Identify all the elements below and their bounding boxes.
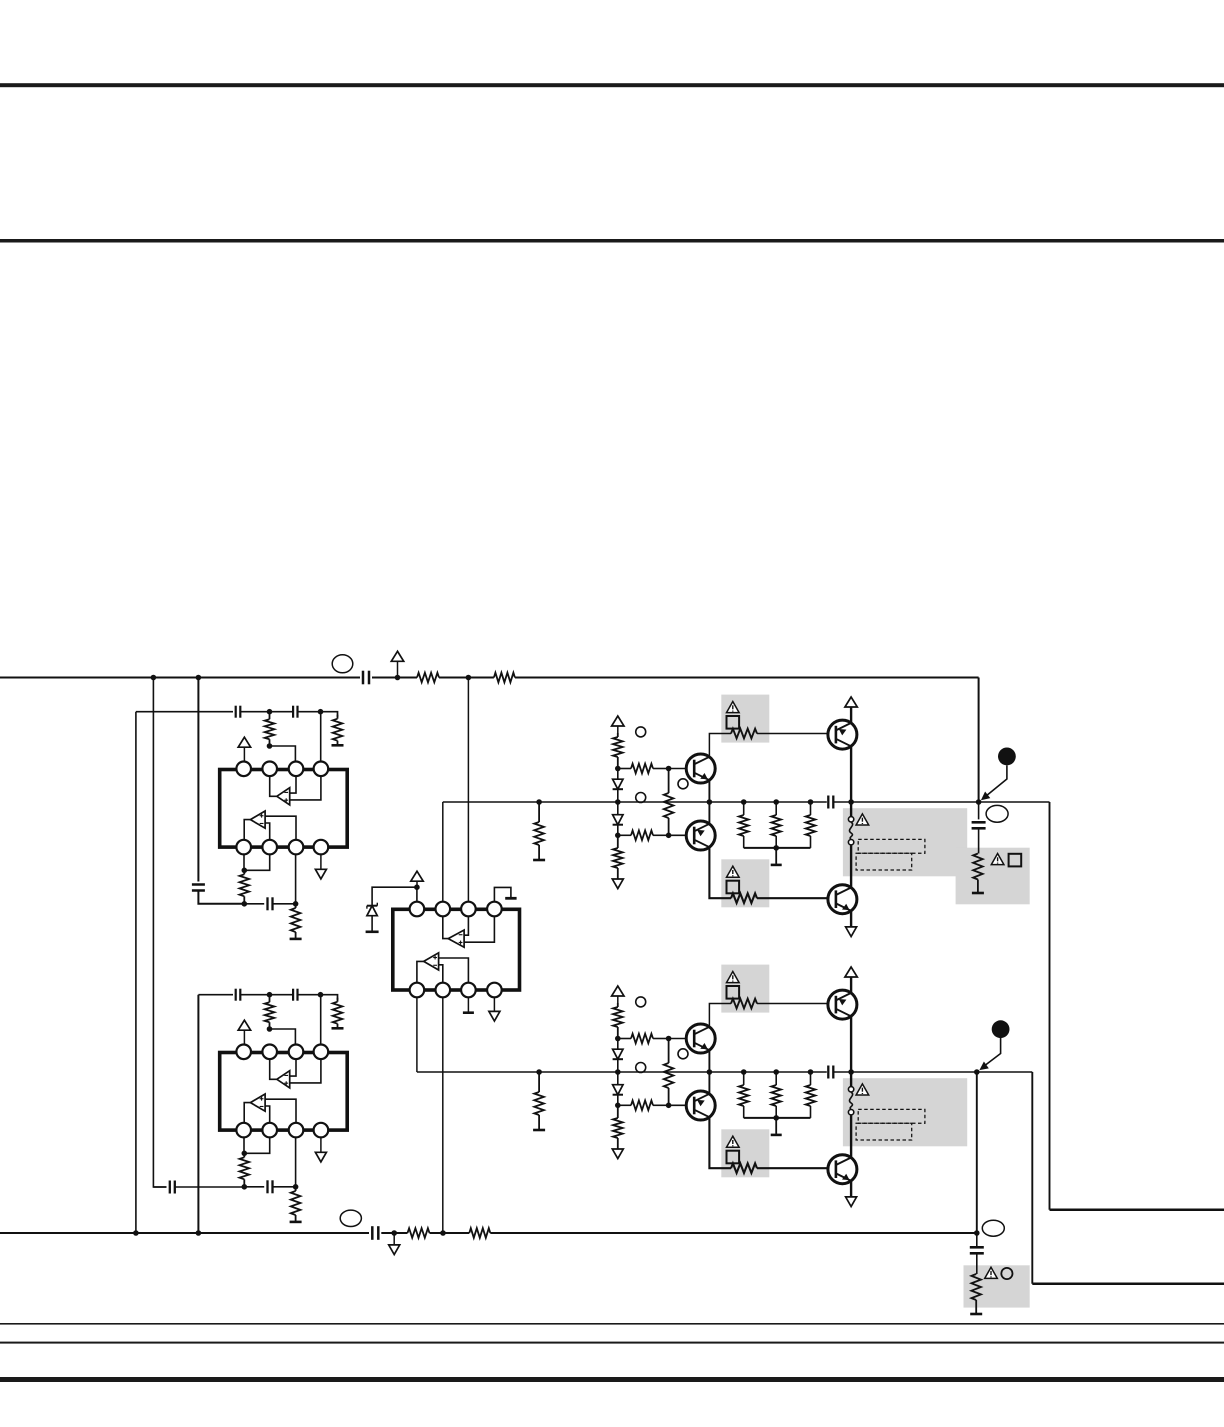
op-amp U1B triangle: [250, 811, 265, 828]
ground symbol (Q4): [846, 927, 857, 937]
wire rail A x136: [135, 712, 137, 1233]
ground symbol (bus2): [393, 1233, 395, 1245]
square icon (top box ch2): [727, 986, 740, 999]
resistor R9 (chain bottom): [617, 835, 619, 848]
junction dot U2 fb node: [267, 1026, 273, 1032]
relay K1 contact: [850, 802, 852, 817]
wire U1A output to pin2: [270, 776, 277, 796]
wire U3 pin4 to chassis stub: [494, 887, 511, 901]
op-amp U1A triangle: [277, 788, 290, 805]
pad circle 3 ch2: [636, 1063, 646, 1073]
junction dot U2 RC node: [293, 1184, 299, 1190]
wire U3A non-inverting from pin4: [464, 916, 494, 942]
op-amp U2A triangle: [277, 1071, 290, 1088]
termination bar (R24): [332, 1027, 344, 1030]
resistor R3 (U1 shunt right): [337, 715, 339, 719]
wire U2 fb node to pin3: [270, 1029, 296, 1044]
wire U1B non-inverting from pin7: [265, 816, 296, 840]
wire emitter net common ch1: [744, 847, 811, 849]
junction dot U1 RC node: [293, 901, 299, 907]
power symbol +V (U1 pin1): [238, 737, 250, 747]
wire U2B output to pin5: [244, 1103, 250, 1124]
ground symbol (ch2 chain): [612, 1149, 623, 1159]
node label ellipse (bus2 input): [340, 1210, 361, 1226]
op-amp U3 package: [393, 909, 520, 990]
wire bus2 left segment: [0, 1232, 369, 1234]
wire U1 lower node to cap: [244, 903, 264, 905]
capacitor C21 (bus2 series): [371, 1226, 374, 1240]
square icon (bottom box ch1): [727, 881, 740, 894]
wire U2 top cap2 to corner: [298, 995, 338, 1000]
junction dot bus2 to U3 pin6: [440, 1230, 446, 1236]
output connector J2: [992, 1020, 1010, 1038]
op-amp U2 bottom pins: [236, 1123, 328, 1138]
wire U1 RC node to pin7: [295, 854, 297, 903]
wire U1B output to pin5: [244, 820, 250, 841]
resistor R16 (ch1 emitter net): [775, 802, 777, 815]
node label ellipse (ch1 output): [986, 805, 1008, 822]
transistor Q5 (driver NPN): [686, 1024, 715, 1053]
power symbol +V (U3): [416, 881, 418, 887]
dashed coil box 2 relay K2: [856, 1123, 912, 1140]
power symbol +V (Q3): [845, 697, 857, 707]
resistor R14 (flameproof bottom): [731, 893, 757, 903]
resistor R33 (flameproof top): [731, 999, 757, 1009]
footer rule thin 1: [0, 1323, 1224, 1325]
resistor R7 (ch1 bias stub): [538, 802, 540, 822]
wire to Q6 base: [669, 1104, 695, 1106]
wire U3 pin5 to ch2 drive rail: [416, 997, 418, 1072]
resistor R8 (chain top): [617, 733, 619, 737]
junction dot ch2 bias stub: [536, 1069, 542, 1075]
junction dot U2 top node2: [318, 992, 324, 998]
transistor Q7 (output top): [828, 990, 857, 1019]
diode D2 (ch1): [617, 802, 619, 815]
wire U2 cap to RC node: [273, 1186, 296, 1188]
resistor R37 (ch2 emitter net): [810, 1072, 812, 1085]
warning triangle icon (ch2 zobel): [985, 1267, 998, 1278]
junction dot rail R35 ch2: [741, 1069, 747, 1075]
termination bar (R27): [533, 1129, 545, 1132]
pad circle 1 ch2: [636, 997, 646, 1007]
op-amp U2B triangle: [250, 1094, 265, 1111]
wire bus1 feedback drop to ch1 output node: [978, 678, 980, 803]
square icon (bottom box ch2): [727, 1151, 740, 1164]
callout box output resistor R21 (ch1): [956, 848, 1030, 905]
resistor R10 (ch1 upper base): [618, 768, 631, 770]
wire to Q3 base: [757, 733, 836, 735]
capacitor C28 (ch2 rail series): [827, 1066, 829, 1079]
transistor Q4 (output bottom): [828, 885, 857, 914]
resistor R35 (ch2 emitter net): [743, 1072, 745, 1085]
op-amp U1 top pins: [236, 762, 328, 777]
junction dot rail R36 ch2: [773, 1069, 779, 1075]
termination bar (R7): [533, 859, 545, 862]
wire bus1 R1 to R2: [439, 676, 494, 678]
op-amp U1 package: [220, 770, 348, 848]
wire Q1 emitter to rail: [708, 780, 710, 802]
junction dot chain top ch2: [615, 1036, 621, 1042]
termination bar (ch2 zobel): [970, 1313, 982, 1316]
output connector J1: [998, 748, 1016, 766]
resistor R21 (ch1 zobel): [973, 854, 983, 880]
wire U3B non-inverting from pin7: [439, 958, 469, 983]
wire U2 RC node to pin7: [295, 1137, 297, 1186]
junction dot bus1 at x153: [151, 675, 157, 681]
wire to Q7 base: [757, 1003, 836, 1005]
callout box flameproof resistor R37 (ch2 top): [721, 965, 769, 1013]
junction dot U1 fb bottom node: [242, 868, 248, 874]
dashed coil box 1 relay K2: [858, 1109, 925, 1123]
capacitor C22 (U2 input): [235, 989, 237, 1001]
wire ch1 drive rail: [443, 801, 827, 803]
wire U1 pin5 down: [243, 854, 245, 870]
wire Q6 collector run: [709, 1117, 731, 1168]
node label ellipse (ch2 output): [982, 1220, 1004, 1236]
wire rail C upper x198: [197, 678, 199, 882]
callout box flameproof resistor R17 (ch1 top): [721, 695, 769, 743]
junction dot bus2 at x198: [196, 1230, 202, 1236]
wire Q8 emitter to ground: [850, 1181, 852, 1197]
wire bus2 cap to R21: [381, 1232, 407, 1234]
junction dot relay node ch1: [848, 799, 854, 805]
pad circle 1 ch1: [636, 727, 646, 737]
wire Q2 collector run: [709, 847, 731, 898]
capacitor C29 (ch2 zobel): [976, 1233, 978, 1247]
wire ch2 output to bus2 node: [976, 1072, 978, 1233]
wire relay to output node ch1: [851, 801, 979, 803]
wire rail B x153: [153, 678, 166, 1188]
junction dot chain bottom ch2: [615, 1103, 621, 1109]
wire relay to Q8 collector: [850, 1115, 852, 1158]
op-amp U3 top pins: [410, 902, 502, 917]
ground symbol (U3 pin8): [493, 997, 495, 1011]
wire bus1 left segment: [0, 676, 360, 678]
wire U1 top between caps: [240, 711, 293, 713]
warning triangle icon (bottom box ch1): [727, 866, 740, 877]
wire bus2 R22 to R23: [430, 1232, 470, 1234]
capacitor C2 (U1 input): [235, 706, 237, 718]
wire U3B output to pin5: [417, 961, 424, 982]
op-amp U3A triangle: [448, 930, 464, 947]
wire U1 fb node to pin3: [270, 746, 296, 761]
wire zener to bar: [371, 916, 373, 932]
warning triangle icon (top box ch2): [727, 972, 740, 983]
wire U3A output to pin2: [443, 916, 448, 938]
wire Q4 emitter to ground: [850, 911, 852, 927]
wire U1A inverting input from pin3: [290, 776, 296, 793]
wire to Q2 base: [669, 834, 695, 836]
wire U2A non-inverting input from pin4: [290, 1059, 321, 1083]
dashed coil box 2 relay K1: [856, 853, 912, 870]
power symbol +V (ch1 chain): [612, 716, 624, 726]
junction dot U3 power node: [414, 884, 420, 890]
wire ch2 drive rail: [417, 1071, 827, 1073]
capacitor C7 (rail C series): [192, 883, 205, 886]
power symbol +V (U2 pin1): [238, 1020, 250, 1030]
wire ch2 output to page edge: [1032, 1283, 1224, 1286]
junction dot U2 top node1: [267, 992, 273, 998]
wire U3 pin3 to bus1: [467, 678, 469, 902]
relay K2 contact: [850, 1072, 852, 1087]
termination bar (R6): [290, 938, 302, 941]
capacitor C24 (U2 lower series): [266, 1180, 268, 1193]
junction dot emitters ch2: [707, 1069, 713, 1075]
wire ch2 output drop: [1031, 1072, 1033, 1284]
termination bar (emitter net ch1): [771, 864, 782, 867]
wire block2 lower from rail B to cap: [153, 1186, 166, 1188]
wire U3 pin2 to ch1 drive rail: [442, 802, 444, 902]
wire Q1 collector run: [709, 734, 731, 757]
wire ch1 zobel cap to R21: [978, 828, 980, 853]
wire Q6 emitter to rail: [708, 1072, 710, 1094]
transistor Q1 (driver NPN): [686, 754, 715, 783]
resistor R25 (U2 feedback top): [269, 995, 271, 1003]
square icon (ch1 zobel): [1009, 854, 1022, 867]
ground symbol (U2 pin8): [320, 1137, 322, 1152]
resistor R4 (U1 feedback top): [269, 712, 271, 720]
warning triangle icon (relay K2): [856, 1084, 869, 1095]
junction dot emitters ch1: [707, 799, 713, 805]
junction dot lower base ch1: [666, 833, 672, 839]
resistor R13 (flameproof top): [731, 729, 757, 739]
square icon (top box ch1): [727, 716, 740, 729]
ground stub emitter net ch2: [775, 1118, 777, 1134]
junction dot relay node ch2: [848, 1069, 854, 1075]
wire Q7 emitter to relay: [850, 1016, 852, 1072]
junction dot bus1 to U3 pin3: [466, 675, 472, 681]
dashed coil box 1 relay K1: [858, 839, 925, 853]
termination bar (zener): [366, 930, 379, 933]
resistor R23 (bus2 series): [469, 1228, 490, 1238]
op-amp U2 top pins: [236, 1045, 328, 1060]
resistor R36 (ch2 emitter net): [775, 1072, 777, 1085]
transistor Q3 (output top): [828, 720, 857, 749]
callout box flameproof resistor R18 (ch1 bottom): [721, 859, 769, 907]
wire to Q1 base: [669, 768, 695, 770]
junction dot U1 top node1: [267, 709, 273, 715]
arrow J2 to node: [984, 1038, 1001, 1067]
chassis bar (U3 pin4): [505, 897, 516, 900]
header rule top: [0, 83, 1224, 87]
junction dot chain bottom ch1: [615, 833, 621, 839]
capacitor C1 (bus1 series): [362, 671, 365, 685]
resistor R15 (ch1 emitter net): [743, 802, 745, 815]
op-amp U3B triangle: [424, 953, 439, 970]
junction dot lower base ch2: [666, 1103, 672, 1109]
junction dot emitter net ch1: [773, 845, 779, 851]
junction dot U2 lower node: [242, 1184, 248, 1190]
wire U1A non-inverting input from pin4: [290, 776, 321, 800]
ground symbol (ch1 chain): [612, 879, 623, 889]
resistor R29 (chain bottom): [617, 1105, 619, 1118]
circle icon (ch2 zobel): [1001, 1268, 1012, 1279]
wire ch1 output drop: [1049, 802, 1051, 1210]
wire Q5 emitter to rail: [708, 1050, 710, 1072]
ground stub emitter net ch1: [775, 848, 777, 864]
diode D3 (ch2): [617, 1039, 619, 1050]
wire U1B inverting from pin6: [265, 823, 270, 840]
resistor R12 (ch1 lower base): [618, 834, 631, 836]
transistor Q6 (driver PNP): [686, 1091, 715, 1120]
termination bar (R3): [332, 744, 344, 747]
ground symbol (U1 pin8): [320, 854, 322, 869]
wire U3B inverting from pin6: [439, 965, 443, 983]
wire block1 top from rail A: [136, 711, 233, 713]
junction dot ch2 output node: [974, 1069, 980, 1075]
wire U3 pin7 to bar: [467, 997, 469, 1012]
wire U1 pin6 down-left: [244, 854, 270, 870]
junction dot rail R15 ch1: [741, 799, 747, 805]
wire to Q8 base: [757, 1167, 836, 1169]
op-amp U3 bottom pins: [410, 983, 502, 998]
resistor R27 (ch2 bias stub): [538, 1072, 540, 1092]
power symbol +V (Q7): [845, 967, 857, 977]
op-amp U2 package: [220, 1053, 348, 1131]
junction dot rail R17 ch1: [808, 799, 814, 805]
capacitor C8 (ch1 rail series): [827, 796, 829, 809]
wire Q5 collector run: [709, 1004, 731, 1027]
resistor R5 (U1 feedback bottom): [243, 870, 245, 874]
power symbol +V (ch2 chain): [612, 986, 624, 996]
wire U2 pin6 down-left: [244, 1137, 270, 1153]
wire emitter net common ch2: [744, 1117, 811, 1119]
wire U3 pin6 to bus2: [442, 997, 444, 1233]
wire cap to relay ch1: [833, 801, 851, 803]
wire to Q5 base: [669, 1038, 695, 1040]
wire to Q4 base: [757, 897, 836, 899]
resistor R2 (bus1 series): [494, 673, 515, 683]
pad circle 3 ch1: [636, 793, 646, 803]
footer rule thick: [0, 1377, 1224, 1382]
junction dot U1 top node2: [318, 709, 324, 715]
junction dot bus2 at x136: [133, 1230, 139, 1236]
resistor R11 (ch1 base-base): [668, 769, 670, 794]
resistor R41 (ch2 zobel): [971, 1274, 981, 1300]
callout box flameproof resistor R38 (ch2 bottom): [721, 1129, 769, 1177]
warning triangle icon (bottom box ch2): [727, 1136, 740, 1147]
wire ch2 zobel cap to R41: [976, 1253, 978, 1274]
node label ellipse (bus1 input): [332, 655, 353, 673]
warning triangle icon (relay K1): [856, 814, 869, 825]
resistor R28 (chain top): [617, 1003, 619, 1007]
wire U2B non-inverting from pin7: [265, 1099, 296, 1123]
resistor R32 (ch2 lower base): [618, 1104, 631, 1106]
resistor R34 (flameproof bottom): [731, 1163, 757, 1173]
wire U3 power node to zener: [372, 887, 417, 905]
callout box output resistor R41 (ch2): [964, 1265, 1030, 1307]
wire U3A inverting from pin3: [464, 916, 468, 935]
capacitor C23 (U2): [292, 989, 294, 1001]
diode D4 (ch2): [617, 1072, 619, 1085]
junction dot bus1 power: [395, 675, 401, 681]
diode D1 (ch1): [617, 769, 619, 780]
callout box relay K2: [843, 1078, 967, 1146]
pad circle 2 ch2: [678, 1049, 688, 1059]
pad circle 2 ch1: [678, 779, 688, 789]
wire block2 cap to fb node: [175, 1186, 244, 1188]
header rule 2: [0, 239, 1224, 243]
junction dot rail R37 ch2: [808, 1069, 814, 1075]
wire U2 lower node to cap: [244, 1186, 264, 1188]
junction dot bus2 ground: [391, 1230, 397, 1236]
wire bus1 cap to R1: [372, 676, 417, 678]
wire U2 pin5 down: [243, 1137, 245, 1153]
junction dot U1 lower node: [242, 901, 248, 907]
wire U2 top between caps: [240, 994, 293, 996]
wire relay to Q4 collector: [850, 845, 852, 888]
junction dot chain top ch1: [615, 766, 621, 772]
wire U1 pin4 to top node2: [320, 712, 322, 762]
resistor R31 (ch2 base-base): [668, 1039, 670, 1064]
junction dot bus1 at x198: [196, 675, 202, 681]
junction dot chain mid ch2: [615, 1069, 621, 1075]
junction dot U2 fb bottom node: [242, 1151, 248, 1157]
termination bar (ch1 zobel): [972, 892, 984, 895]
wire rail C upper below cap: [198, 891, 244, 904]
power symbol +V (bus1): [397, 662, 399, 678]
wire U1 top cap2 to corner: [298, 712, 338, 717]
capacitor C4 (U1 lower series): [266, 897, 268, 910]
junction dot ch1 output node: [976, 799, 982, 805]
junction dot U1 fb node: [267, 743, 273, 749]
transistor Q2 (driver PNP): [686, 821, 715, 850]
resistor R26 (U2 feedback bottom): [243, 1153, 245, 1157]
capacitor C27 (block2 lower series): [169, 1181, 171, 1194]
wire ch1 output to corner: [979, 801, 1050, 803]
arrow J1 to node: [985, 765, 1007, 796]
op-amp U1 bottom pins: [236, 840, 328, 855]
junction dot ch1 bias stub: [536, 799, 542, 805]
wire U2A inverting input from pin3: [290, 1059, 296, 1076]
transistor Q8 (output bottom): [828, 1155, 857, 1184]
termination bar (U3 pin7): [463, 1011, 474, 1014]
wire block2 top from rail C: [198, 994, 233, 996]
wire relay to output node ch2: [851, 1071, 977, 1073]
wire U1 cap to RC node: [273, 903, 296, 905]
warning triangle icon (ch1 zobel): [991, 854, 1004, 865]
wire U3 pin1 to power node: [416, 887, 418, 902]
wire U2A output to pin2: [270, 1059, 277, 1079]
ground symbol (Q8): [846, 1197, 857, 1207]
wire U2 pin4 to top node2: [320, 995, 322, 1045]
resistor R24 (U2 shunt right): [337, 998, 339, 1002]
wire cap to relay ch2: [833, 1071, 851, 1073]
wire U2B inverting from pin6: [265, 1106, 270, 1123]
termination bar (emitter net ch2): [771, 1134, 782, 1137]
resistor R30 (ch2 upper base): [618, 1038, 631, 1040]
resistor R6 (U1 to ground): [295, 904, 297, 908]
junction dot ch2 zobel node: [974, 1230, 980, 1236]
capacitor C3 (U1): [292, 706, 294, 718]
warning triangle icon (top box ch1): [727, 702, 740, 713]
resistor R1 (bus1 series): [417, 673, 439, 683]
resistor R22 (bus2 series): [408, 1228, 430, 1238]
wire ch1 output to page edge: [1050, 1208, 1224, 1211]
termination bar (R27): [290, 1221, 302, 1224]
wire rail C lower x198: [197, 995, 199, 1233]
zener diode D5 (U3 supply): [367, 905, 377, 907]
wire Q3 emitter to relay: [850, 746, 852, 802]
junction dot rail R16 ch1: [773, 799, 779, 805]
wire ch2 output to corner: [977, 1071, 1033, 1073]
junction dot chain mid ch1: [615, 799, 621, 805]
wire bus1 R2 to right corner: [515, 676, 979, 678]
footer rule thin 2: [0, 1342, 1224, 1344]
wire Q2 emitter to rail: [708, 802, 710, 824]
resistor R17 (ch1 emitter net): [810, 802, 812, 815]
resistor R27 (U2 to ground): [295, 1187, 297, 1191]
